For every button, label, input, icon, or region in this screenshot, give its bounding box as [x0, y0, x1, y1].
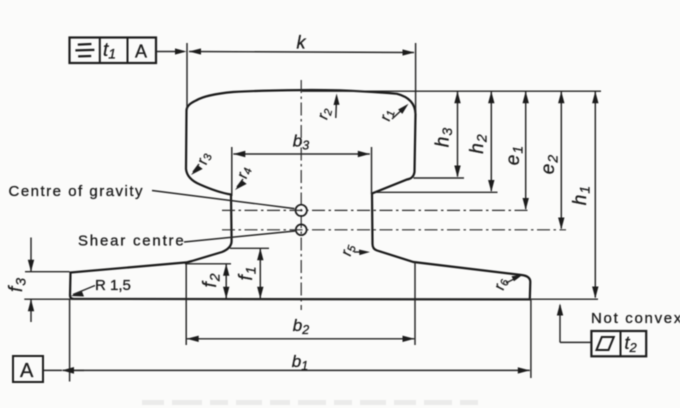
svg-text:Not convex: Not convex	[591, 310, 680, 327]
leader centre of gravity	[152, 191, 295, 209]
svg-text:h1: h1	[570, 185, 592, 205]
centre of gravity symbol	[296, 205, 307, 216]
f3 dimension arrows (outside)	[30, 238, 32, 272]
f3 reference line	[25, 271, 70, 273]
head top reference line	[302, 90, 601, 92]
leader from t1 frame to k extension line	[156, 51, 184, 53]
b3 dimension line	[233, 153, 369, 155]
svg-text:r6: r6	[491, 276, 512, 292]
e1 dimension line	[525, 91, 527, 209]
svg-text:r3: r3	[194, 150, 215, 166]
not convex pointer arrow	[559, 305, 561, 342]
faint cut caption at bottom	[142, 400, 478, 405]
h3 dimension line	[457, 91, 459, 176]
svg-text:R 1,5: R 1,5	[95, 277, 131, 294]
leader shear centre	[184, 231, 295, 242]
svg-text:r1: r1	[377, 108, 398, 124]
b1 dimension line	[63, 369, 530, 371]
svg-text:Shear centre: Shear centre	[78, 233, 185, 250]
f2 dimension line	[225, 264, 227, 299]
datum A box	[13, 356, 43, 382]
feature control frame t1 box	[70, 38, 157, 64]
h1 dimension line	[594, 91, 596, 297]
h2 dimension line	[490, 91, 492, 191]
shear centre symbol	[296, 224, 307, 235]
f1 dimension line	[259, 248, 261, 298]
f1 reference line	[230, 247, 269, 249]
foot bottom reference line	[24, 298, 598, 300]
svg-text:h2: h2	[467, 133, 489, 153]
svg-text:e2: e2	[538, 154, 560, 174]
svg-text:A: A	[135, 42, 147, 62]
svg-text:b1: b1	[292, 352, 308, 373]
centerline	[300, 80, 302, 310]
f2 reference line	[185, 263, 231, 265]
svg-text:b3: b3	[293, 132, 309, 153]
h3 reference line	[414, 177, 465, 179]
b1 extension lines	[69, 299, 71, 381]
rail profile outline	[70, 90, 530, 299]
svg-text:k: k	[297, 33, 307, 53]
svg-text:A: A	[20, 360, 34, 382]
b2 extension lines	[185, 264, 187, 345]
svg-text:f1: f1	[236, 265, 258, 280]
e2 dimension line	[560, 91, 562, 228]
svg-text:t2: t2	[625, 333, 638, 355]
k dimension line	[189, 52, 414, 53]
centre of gravity axis (dash-dot)	[222, 209, 530, 211]
svg-text:h3: h3	[433, 127, 455, 147]
svg-text:f2: f2	[200, 272, 222, 287]
k dimension extension lines	[186, 43, 188, 110]
svg-text:r4: r4	[234, 165, 255, 181]
svg-text:t1: t1	[103, 40, 116, 62]
b2 dimension line	[187, 338, 414, 340]
svg-text:r5: r5	[338, 242, 359, 258]
h2 reference line	[375, 191, 498, 193]
svg-text:Centre of gravity: Centre of gravity	[9, 183, 145, 200]
svg-text:f3: f3	[6, 277, 28, 292]
not convex connector	[560, 341, 591, 343]
b3 extension lines	[231, 147, 233, 196]
svg-text:r2: r2	[314, 106, 335, 122]
svg-text:e1: e1	[503, 145, 525, 165]
feature control frame t2 box	[591, 331, 646, 356]
shear centre axis (dash-dot)	[222, 229, 566, 231]
datum A connector	[43, 369, 62, 371]
svg-text:b2: b2	[293, 316, 309, 337]
